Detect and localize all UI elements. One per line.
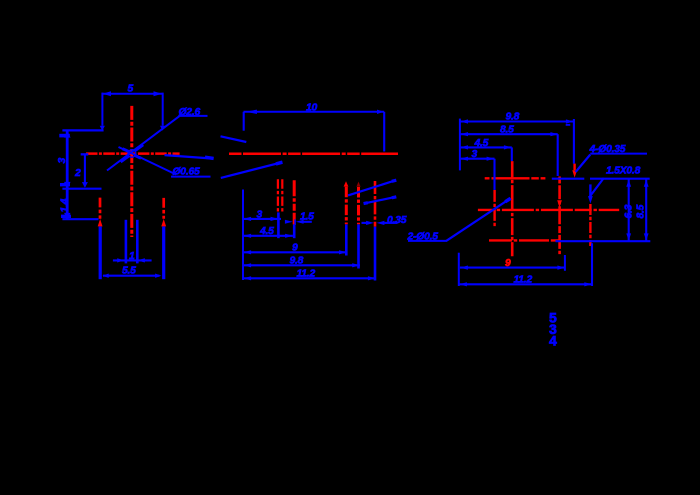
svg-text:Ø2.6: Ø2.6: [179, 107, 201, 118]
svg-text:3: 3: [257, 209, 263, 220]
svg-text:8.5: 8.5: [636, 204, 647, 218]
svg-text:9: 9: [505, 258, 511, 269]
svg-text:6.3: 6.3: [624, 204, 635, 218]
svg-text:9: 9: [292, 242, 298, 253]
svg-text:5.5: 5.5: [122, 265, 136, 276]
svg-text:4-Ø0.35: 4-Ø0.35: [589, 144, 626, 155]
svg-text:4: 4: [549, 332, 557, 348]
svg-text:3: 3: [57, 158, 68, 164]
svg-text:5: 5: [128, 84, 134, 95]
svg-text:9.8: 9.8: [290, 255, 304, 266]
svg-text:1.5: 1.5: [300, 212, 314, 223]
svg-text:Ø0.65: Ø0.65: [173, 167, 201, 178]
svg-text:11.2: 11.2: [297, 268, 316, 279]
svg-text:1.5X0.8: 1.5X0.8: [606, 166, 641, 177]
svg-text:3: 3: [472, 149, 478, 160]
svg-text:11.2: 11.2: [514, 274, 533, 285]
svg-text:10: 10: [306, 103, 318, 114]
svg-text:4.5: 4.5: [474, 138, 489, 149]
svg-text:2: 2: [74, 168, 81, 179]
svg-text:9.8: 9.8: [506, 112, 520, 123]
svg-text:8.5: 8.5: [500, 125, 514, 136]
svg-text:2-Ø0.5: 2-Ø0.5: [407, 231, 439, 242]
svg-text:4.5: 4.5: [259, 226, 274, 237]
svg-text:1.4: 1.4: [60, 198, 71, 212]
svg-text:0.35: 0.35: [387, 215, 407, 226]
svg-text:1: 1: [129, 251, 135, 262]
